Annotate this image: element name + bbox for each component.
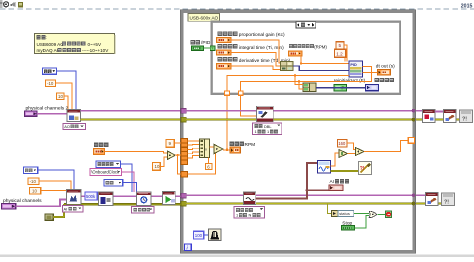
wire process variable in case: [227, 76, 349, 94]
tunnel error row2 left: [181, 201, 186, 206]
svg-text:1.2: 1.2: [336, 51, 343, 56]
Clear Errors vi: [359, 162, 372, 175]
wire multiply to divide2: [348, 153, 356, 155]
svg-text:100: 100: [195, 233, 203, 238]
svg-text:N: N: [249, 213, 252, 218]
wire error olive AO create to loop: [81, 118, 182, 120]
numeric constant 100: [194, 231, 204, 239]
case selector tunnel: [210, 46, 215, 51]
terminal setpoint RPM: [289, 51, 303, 56]
svg-text:10: 10: [58, 94, 63, 99]
wire -10 AI: [39, 181, 71, 192]
wire chart navy: [316, 87, 366, 89]
stacked tunnels left edge: [181, 139, 187, 143]
tunnel task row2 left: [181, 193, 186, 198]
wire setpoint to PID: [301, 56, 349, 64]
wire -10: [56, 83, 73, 110]
wire 10 AI: [41, 191, 68, 192]
label proportional gain: [218, 31, 223, 36]
polymorphic selector AO voltage: [63, 123, 86, 129]
comment note box: [35, 34, 115, 54]
wire error branch to status: [328, 204, 332, 214]
DAQmx Create Virtual Channel VI (AO): [67, 110, 81, 122]
DAQmx Clear Task VI row2: [426, 193, 439, 206]
label sample rate: [94, 143, 98, 147]
string constant OnboardClock: [90, 169, 122, 176]
bundle PID gains: [281, 61, 294, 70]
wire waveform maroon: [256, 163, 318, 199]
loop conditional terminal: [386, 211, 392, 218]
wire 9 to tunnel: [174, 142, 181, 144]
divide node outside: [167, 151, 175, 160]
wire task row2 to clear vi: [416, 194, 426, 196]
label waveform chart: [375, 78, 379, 82]
wire stop to clear vi: [435, 111, 443, 113]
wire AO data to write vi: [241, 95, 257, 116]
wait until next ms multiple: [209, 229, 222, 241]
wire 160 to divide2: [347, 143, 356, 149]
tunnel task row1 left: [181, 108, 186, 113]
enum constant default (AO): [43, 68, 57, 74]
DAQmx name constant physical channels: [2, 203, 16, 209]
svg-text:?!: ?!: [462, 116, 467, 122]
wire error olive row2 inside: [186, 202, 413, 204]
numeric constant -10 (AI): [28, 178, 39, 185]
wire task to stop task vi: [416, 110, 423, 112]
while loop subdiagram label USB-600x AO: [188, 14, 220, 22]
svg-text:-10: -10: [30, 179, 37, 184]
loop iteration terminal: [185, 244, 192, 250]
wire continuous samples: [120, 164, 131, 192]
numeric constant 10 (AI): [30, 188, 41, 195]
wire divide out to tunnels: [175, 154, 181, 156]
numeric constant 500k: [85, 192, 97, 200]
wire error olive row1 inside: [186, 118, 413, 120]
case selector label true: [296, 22, 316, 28]
wire error olive row2 outside: [64, 203, 181, 205]
unbundle status node: [332, 210, 339, 216]
bottom window edge: [0, 255, 474, 257]
terminal proportional gain: [217, 37, 232, 42]
wire enum AI: [38, 170, 74, 192]
terminal RPM gauge: [230, 147, 241, 153]
svg-text:status: status: [339, 211, 350, 216]
divide node inside loop: [214, 144, 223, 153]
Simple Error Handler VI row1: [460, 110, 473, 123]
wire task purple AO create to loop: [81, 110, 182, 112]
numeric constant 160: [338, 140, 348, 148]
terminal waveform chart: [366, 84, 379, 90]
case tunnel PV: [225, 91, 230, 95]
svg-text:integral time (Ti, min): integral time (Ti, min): [239, 45, 284, 51]
DAQmx name constant physical channels 2: [25, 111, 38, 116]
enum rising: [104, 180, 123, 187]
svg-text::: :: [46, 35, 47, 40]
svg-text:9: 9: [169, 141, 172, 146]
selector sample clock: [132, 207, 154, 213]
Simple Error Handler VI row2: [442, 193, 455, 206]
svg-text:5: 5: [339, 43, 342, 48]
toolbar icon run-continuously: [4, 2, 9, 7]
svg-text:x: x: [205, 147, 207, 152]
svg-text:/PID: /PID: [201, 40, 211, 46]
svg-text:?!: ?!: [360, 166, 365, 172]
DAQmx Create Virtual Channel VI (AI): [67, 190, 82, 205]
wire onboard clock: [122, 172, 135, 192]
wire task purple row2 outside: [81, 195, 181, 197]
multiply node: [339, 150, 348, 158]
wire Ti to bundle: [231, 53, 281, 67]
DAQmx Clear Task VI: [444, 110, 457, 123]
terminal derivative time: [217, 64, 232, 69]
wire compound to divide: [210, 146, 215, 148]
svg-text:AI: AI: [64, 207, 68, 212]
wire or to conditional: [377, 213, 385, 215]
wires tunnels to compound node: [188, 140, 200, 142]
svg-text:dt out (s): dt out (s): [376, 63, 395, 69]
svg-text:reinitialize? (F): reinitialize? (F): [334, 78, 366, 84]
error in constant: [45, 214, 53, 220]
numeric constant 1.2: [335, 49, 346, 57]
wire rising: [123, 183, 137, 192]
selector analog DBL 1chan 1samp: [253, 123, 282, 135]
label setpoint RPM: [289, 44, 293, 48]
label manual/PID: [191, 40, 195, 44]
DAQmx Write VI: [257, 106, 274, 122]
svg-text:DBL: DBL: [264, 124, 272, 129]
boolean constant F: [334, 84, 347, 91]
svg-text:USB-600x AO: USB-600x AO: [190, 15, 219, 20]
svg-text:USB6009 AO: USB6009 AO: [37, 42, 65, 47]
svg-text:-----10~+10V: -----10~+10V: [82, 48, 109, 53]
terminal dt out: [378, 69, 391, 75]
svg-text:1: 1: [267, 129, 269, 134]
svg-text:-10: -10: [47, 81, 54, 86]
wire task purple to AO create: [37, 113, 67, 115]
svg-text:proportional gain (Kc): proportional gain (Kc): [239, 32, 285, 38]
DAQmx Start Task VI: [163, 192, 176, 205]
svg-text:1: 1: [255, 129, 257, 134]
wire error in: [53, 204, 64, 217]
wire enum to AO create: [57, 71, 77, 110]
wire stop to or: [355, 216, 370, 228]
boolean terminal manual/PID: [192, 46, 204, 51]
numeric constant 9: [166, 140, 174, 148]
dashed separator line: [0, 8, 474, 10]
wire sample rate to divide: [105, 152, 168, 154]
wire bottom tunnel to divide: [188, 152, 216, 174]
label derivative time: [218, 57, 223, 62]
wire physical channels to AI create: [16, 200, 67, 207]
DAQmx Configure Input Buffer VI: [99, 192, 114, 206]
wire dcrms to multiply: [331, 153, 340, 166]
enum constant default (AI): [24, 167, 38, 174]
toolbar icon fragment left edge: [0, 0, 3, 8]
boolean terminal stop: [342, 226, 355, 231]
wire range to PID top: [344, 45, 347, 62]
svg-text:10: 10: [155, 164, 160, 169]
wire 10 to divide: [160, 157, 167, 166]
DAQmx Timing VI: [137, 192, 151, 206]
junction dots right edge row1: [412, 109, 416, 113]
numeric constant -10 (AO): [46, 80, 56, 87]
enum continuous samples: [96, 161, 120, 168]
wire task purple row1 inside: [186, 110, 413, 112]
svg-text:0~+5V: 0~+5V: [88, 42, 102, 47]
svg-text:160: 160: [338, 141, 346, 146]
junction dots right edge row2: [412, 193, 416, 197]
terminal sample rate: [94, 149, 105, 155]
divide2 node: [356, 148, 364, 156]
case tunnel AO out: [238, 91, 243, 95]
DAQmx Read VI: [244, 192, 256, 205]
tunnel bottom extra: [181, 172, 187, 177]
wire gains cluster navy to PID: [293, 66, 349, 70]
numeric constant 10 (AO): [57, 93, 65, 100]
svg-text:RPM: RPM: [245, 142, 256, 148]
svg-text:(RPM): (RPM): [314, 44, 327, 49]
wire Td to bundle: [231, 66, 281, 69]
svg-text:AI: AI: [330, 179, 335, 185]
selector AI voltage: [63, 206, 84, 212]
svg-text:500k: 500k: [86, 194, 96, 199]
DC-RMS vi: [318, 161, 331, 173]
PID vi: [349, 61, 363, 77]
svg-text:2015: 2015: [461, 3, 473, 9]
wire 10: [64, 96, 68, 110]
bundle chart inputs: [303, 83, 316, 92]
svg-text:\OnboardClock: \OnboardClock: [91, 170, 120, 175]
wire task purple row2 inside: [186, 194, 413, 196]
wire error under icons row1: [416, 118, 460, 120]
toolbar icon abort: [11, 2, 16, 7]
terminal integral time: [217, 50, 232, 55]
wire PV vertical to RPM junction: [226, 95, 228, 150]
wire waveform branch to chart: [307, 189, 329, 191]
svg-text:10: 10: [32, 189, 37, 194]
tunnel error row1 left: [181, 117, 186, 122]
case structure frame: [212, 22, 401, 94]
svg-text:PID: PID: [350, 63, 357, 67]
label integral time: [218, 44, 223, 49]
svg-text:1: 1: [236, 213, 238, 218]
svg-text:?!: ?!: [444, 199, 449, 205]
or gate: [369, 211, 377, 217]
wire error row2 under icons: [416, 202, 442, 204]
wire PID output to AO tunnel: [241, 67, 372, 94]
label RPM gauge: [230, 142, 234, 146]
svg-text:myDAQ AO: myDAQ AO: [37, 48, 61, 53]
numeric constant 10 mid: [153, 163, 161, 171]
wire PID to dt out: [363, 71, 378, 73]
terminal AI waveform chart: [329, 185, 343, 191]
DAQmx Stop Task VI: [423, 110, 436, 123]
while loop frame: [180, 10, 415, 253]
selector analog waveform NChan NSamp: [234, 207, 264, 218]
tunnel orange right edge: [408, 138, 414, 144]
toolbar icon pause-olive: [18, 2, 23, 8]
svg-text:AO: AO: [64, 124, 70, 129]
wire error to clear errors: [331, 170, 359, 172]
numeric constant 5: [336, 42, 344, 49]
wire status to or: [354, 212, 369, 214]
wire divide to RPM terminal: [223, 149, 230, 151]
wire selector green: [204, 47, 212, 49]
wire divide2 to tunnel right: [364, 140, 408, 151]
compound arithmetic node: [200, 139, 210, 158]
numeric constant 6: [206, 164, 212, 170]
wire 100 to wait: [204, 234, 209, 236]
wire Kc to bundle: [231, 40, 281, 63]
